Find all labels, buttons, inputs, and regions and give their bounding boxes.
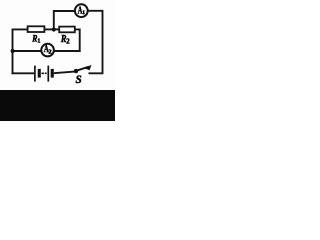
svg-text:1: 1	[82, 10, 85, 16]
svg-text:2: 2	[66, 39, 70, 46]
svg-text:2: 2	[48, 49, 51, 56]
svg-text:1: 1	[37, 38, 40, 44]
svg-text:S: S	[76, 72, 83, 86]
